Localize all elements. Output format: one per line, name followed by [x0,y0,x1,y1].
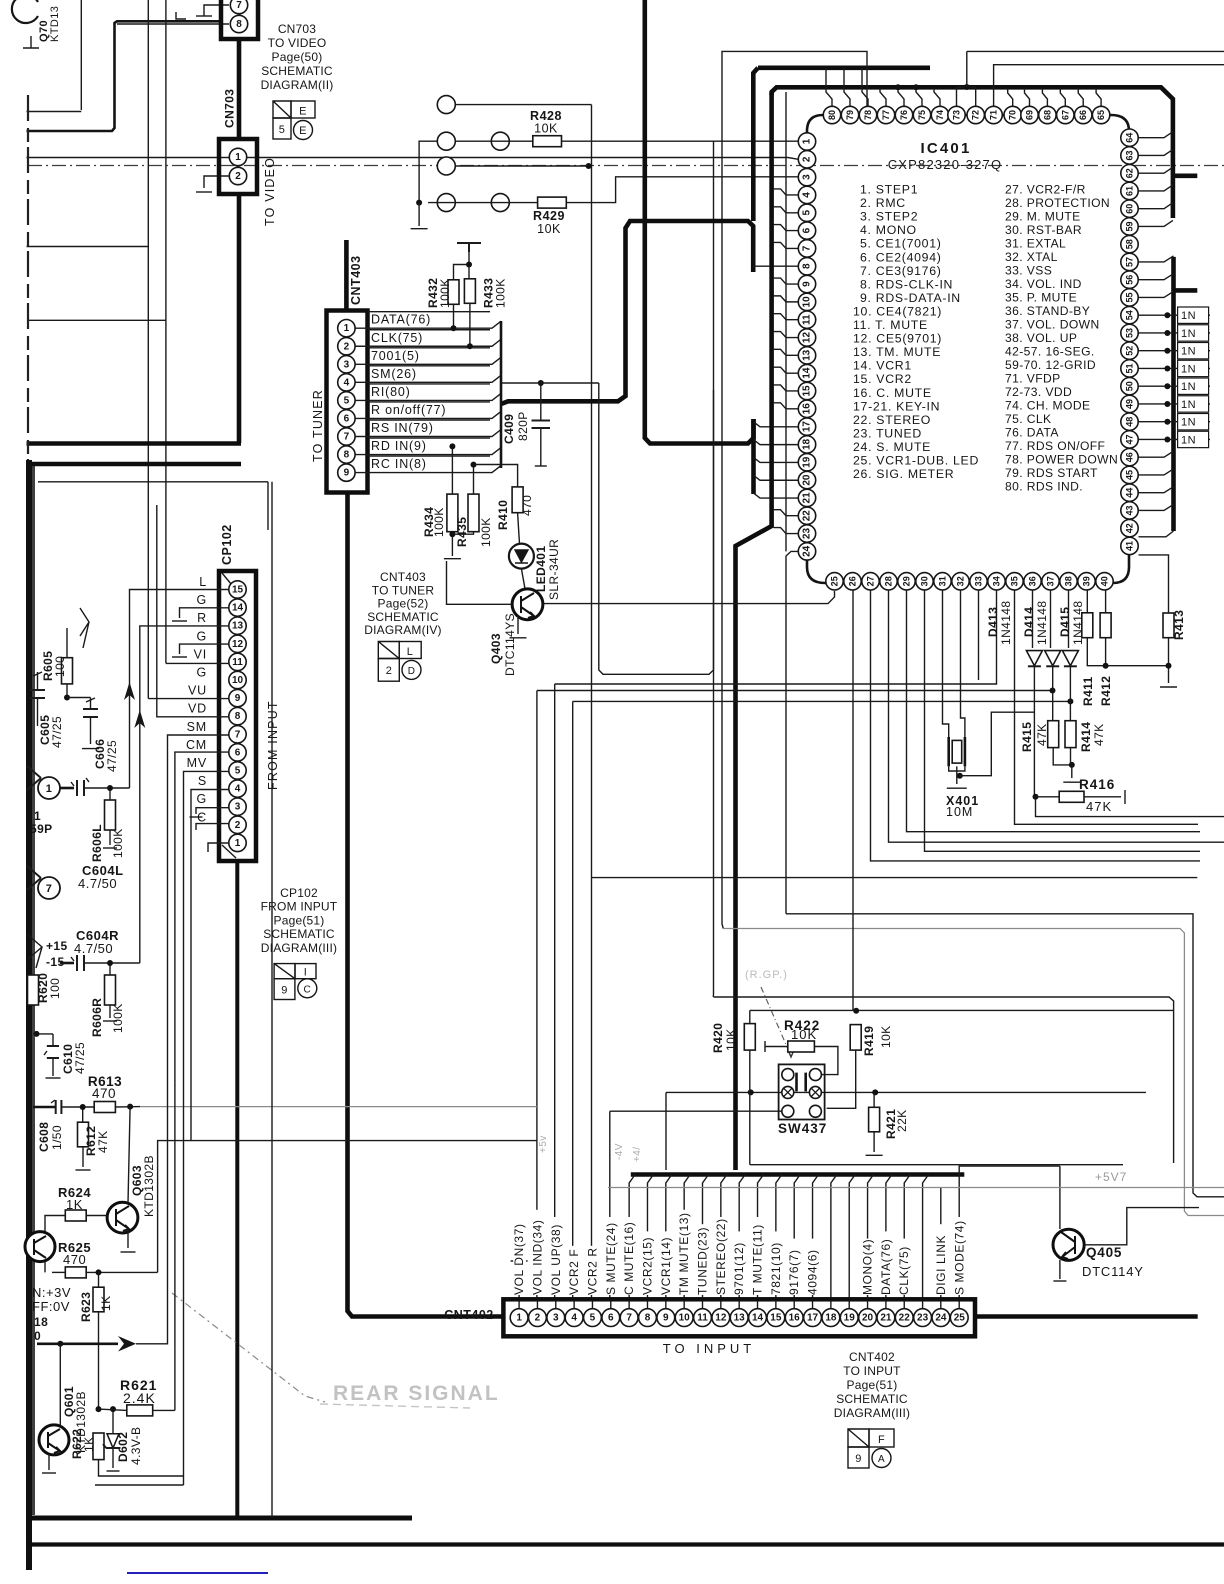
svg-text:TO INPUT: TO INPUT [663,1341,755,1356]
IC401 pin 40 [1096,573,1113,590]
svg-text:100K: 100K [479,517,493,547]
svg-text:5. CE1(7001): 5. CE1(7001) [860,237,942,251]
svg-text:64: 64 [1125,133,1135,143]
svg-text:23: 23 [917,1313,929,1324]
CNT402 pin 12 [712,1309,730,1327]
wire [356,357,502,364]
wire [356,466,502,473]
LED LED401 SLR-34UR [518,513,520,544]
svg-text:10K: 10K [879,1025,893,1048]
svg-text:48: 48 [1125,417,1135,427]
svg-text:D415: D415 [1058,607,1072,637]
vertical x786 upper part [785,92,787,551]
svg-text:78. POWER DOWN: 78. POWER DOWN [1005,453,1118,467]
capacitor C409 820P [540,383,542,421]
svg-text:16: 16 [802,403,813,415]
wire y877.6 long line joining pin5 column [592,877,1198,879]
svg-text:CNT403: CNT403 [349,255,363,305]
IC401 pin 12 [798,329,815,346]
svg-text:12: 12 [232,639,244,650]
svg-text:4.7/50: 4.7/50 [78,876,117,891]
svg-text:470: 470 [92,1086,116,1101]
svg-text:1N: 1N [1181,417,1196,429]
svg-text:TO TUNER: TO TUNER [311,389,325,462]
svg-text:46: 46 [1125,452,1135,462]
IC401 pin 3 [798,168,815,185]
IC401 pin 44 [1121,484,1138,501]
wires pins 46-43 into bus B bottom [1139,451,1174,457]
CNT402 pin 20 label MONO(4) [862,1239,875,1295]
svg-text:1: 1 [235,838,241,849]
IC401 pin 64 [1121,129,1138,146]
IC401 pin 42 [1121,520,1138,537]
IC401 pin 2 [798,151,815,168]
op-amp/microcontroller IC401 CXP82320-327Q body outline [807,115,1129,583]
resistor R415 47K [1048,721,1059,748]
transistor Q601 KTD1302B [39,1425,69,1455]
thick rail y464 [27,462,242,467]
svg-text:3: 3 [553,1313,559,1324]
svg-text:55: 55 [1125,292,1135,302]
svg-text:1. STEP1: 1. STEP1 [860,183,918,197]
stubs bar to pins 17-21 [754,422,799,427]
svg-text:VD: VD [188,702,207,716]
wire pin32 to X401 right [961,590,965,737]
svg-text:37. VOL. DOWN: 37. VOL. DOWN [1005,318,1100,332]
CNT402 pin 19 [840,1309,858,1327]
resistor R432 100K [448,280,459,305]
wire middle row SW437 [666,1091,1146,1093]
svg-text:100: 100 [53,656,67,677]
IC401 pin 33 [970,573,987,590]
zener diode D602 4.3V-B [112,1409,114,1434]
supply T above R432 [457,243,481,252]
CNT402 pin 9 label VCR1(14) [660,1231,673,1295]
svg-text:D413: D413 [986,607,1000,637]
ground below Q70x [23,36,39,48]
svg-text:70: 70 [1008,110,1018,120]
input jack contact circled 7 [27,866,41,890]
CP102 pin 9 [229,689,246,706]
svg-text:77. RDS ON/OFF: 77. RDS ON/OFF [1005,439,1105,453]
wire to Q601 base [59,1344,61,1429]
wire SM(26) extension to C409 and U loop [501,382,599,384]
svg-text:N:+3V: N:+3V [32,1285,71,1300]
wires R411/R412 bottoms [1087,638,1168,666]
diode D414 1N4148 [1045,651,1061,666]
stubs top pins 80-78 to rail1 [826,68,832,106]
wires R613 row [33,1106,56,1109]
svg-text:7: 7 [802,245,813,251]
svg-text:27: 27 [866,576,876,586]
svg-text:74: 74 [935,110,945,120]
svg-text:34. VOL. IND: 34. VOL. IND [1005,277,1082,291]
wires R434/R435 [451,446,453,494]
bus vertical x645 from top [645,0,754,444]
transistor Q405 [1053,1229,1084,1260]
svg-text:35. P. MUTE: 35. P. MUTE [1005,291,1077,305]
page split dash-dot line [28,165,1224,167]
svg-text:R429: R429 [533,209,565,223]
CP102 pin 12 [229,635,246,652]
wire R622 bottom [99,1460,184,1476]
CNT403 harness trunk [500,321,503,468]
wires top pins 70-65 up to bus2 [1008,87,1013,106]
IC401 pin 39 [1078,573,1095,590]
wire CP102 pin5 MV down [184,771,229,1130]
svg-text:R606R: R606R [90,998,104,1037]
resistor R624 1K [65,1210,86,1221]
IC left pin wires merging into main trunk bus [774,189,799,195]
svg-text:6: 6 [802,227,813,233]
svg-text:14: 14 [802,367,813,379]
CNT402 pin 25 label S MODE(74) [953,1217,966,1295]
wire pin33 down-left [978,590,980,680]
wire pin35 down to right bottom [1015,590,1199,824]
resistor R421 22K [869,1107,880,1132]
svg-text:74. CH. MODE: 74. CH. MODE [1005,399,1090,413]
IC401 pin 6 [798,222,815,239]
CNT402 pin 3 [547,1309,565,1327]
wire Q403 emitter ground [517,616,519,634]
CNT402 pin 8 label VCR2(15) [641,1231,654,1295]
svg-text:R413: R413 [1172,610,1186,640]
CNT402 pin 17 [804,1309,822,1327]
svg-text:71. VFDP: 71. VFDP [1005,372,1061,386]
wire pin2 C [196,824,229,830]
svg-text:62: 62 [1125,168,1135,178]
svg-text:VI: VI [194,647,207,661]
wire pin31 to X401 left [943,590,949,737]
switch SW437 [779,1064,825,1119]
wire horizontal y320 [28,319,166,321]
bus stub right y175.8 [1173,174,1197,179]
svg-text:C MUTE(16): C MUTE(16) [622,1222,636,1295]
IC401 pin 71 [985,106,1002,123]
IC401 pin 25 [826,573,843,590]
svg-text:TUNED(23): TUNED(23) [696,1227,710,1295]
wire bundle y684 [554,684,556,1299]
svg-text:S MUTE(24): S MUTE(24) [604,1222,618,1295]
+15 -15 supply chevrons [28,935,42,968]
svg-text:9: 9 [344,468,350,479]
svg-text:TO VIDEO: TO VIDEO [263,157,277,226]
svg-text:CXP82320-327Q: CXP82320-327Q [888,157,1003,172]
svg-text:27. VCR2-F/R: 27. VCR2-F/R [1005,183,1086,197]
IC401 pin 4 [798,186,815,203]
wire Q603 collector up [128,1107,130,1203]
wire [27,111,82,113]
svg-text:7. CE3(9176): 7. CE3(9176) [860,264,942,278]
diode boxes 1N4148 row (cut at page edge) [1178,307,1209,323]
svg-text:9701(12): 9701(12) [732,1242,746,1295]
wire [356,430,502,437]
IC401 pin 50 [1121,378,1138,395]
wire L riser with arrow [130,590,229,789]
svg-text:5: 5 [590,1313,596,1324]
svg-text:49: 49 [1125,399,1135,409]
svg-text:51: 51 [1125,363,1135,373]
IC401 pin 55 [1121,289,1138,306]
IC401 pin 16 [798,400,815,417]
svg-text:Page(50): Page(50) [272,50,323,64]
svg-text:57: 57 [1125,257,1135,267]
svg-text:17: 17 [802,421,813,433]
wire D414 down to R415 [1052,666,1054,720]
pin1 ground tee [511,1260,528,1262]
CNT403 pin 5 [338,392,355,409]
svg-text:VU: VU [188,684,207,698]
bus elbow top-left [27,21,222,131]
blue underline artifact [127,1572,268,1574]
wire R422 right bend to switch [814,1047,838,1075]
svg-text:8: 8 [344,450,350,461]
svg-text:I: I [304,967,307,979]
antenna/jack chevron upper [80,608,89,648]
svg-text:22. STEREO: 22. STEREO [853,413,931,427]
wire pin41 to R413 [1139,555,1169,613]
thick rail right of CNT402 [975,1314,1198,1319]
wire CNT403 stem bottom (trunk corners into CNT402 left) [348,493,506,1317]
svg-text:13: 13 [734,1313,746,1324]
IC401 pin 79 [841,106,858,123]
CNT402 pin 23 [914,1309,932,1327]
wire Q405 collector [1059,1166,1061,1229]
svg-text:9: 9 [281,985,288,997]
CNT403 pin 7 [338,428,355,445]
svg-text:R410: R410 [496,500,510,530]
wire pin39 to R411 [1086,590,1088,613]
CNT402 pin 6 label S MUTE(24) [605,1217,618,1295]
svg-text:15: 15 [770,1313,782,1324]
svg-text:G: G [196,629,207,643]
resistor R434 100K [447,494,458,532]
svg-text:18: 18 [802,438,813,450]
IC401 pin 18 [798,436,815,453]
IC401 pin 45 [1121,466,1138,483]
svg-text:1K: 1K [66,1197,83,1212]
input jack contact circled 1 [27,766,41,790]
svg-text:TM MUTE(13): TM MUTE(13) [677,1212,691,1295]
svg-text:7: 7 [46,883,53,895]
svg-text:0: 0 [34,1329,41,1343]
svg-text:16: 16 [789,1313,801,1324]
svg-text:RI(80): RI(80) [371,385,411,399]
svg-text:S: S [198,774,207,788]
wire C604R to riser R [84,962,140,964]
svg-text:9176(7): 9176(7) [787,1249,801,1295]
svg-text:TO INPUT: TO INPUT [843,1364,901,1378]
svg-text:4: 4 [344,377,350,388]
IC401 pin 62 [1121,165,1138,182]
svg-text:6: 6 [608,1313,614,1324]
svg-text:10: 10 [232,675,244,686]
IC401 pin 77 [877,106,894,123]
svg-text:D414: D414 [1022,607,1036,637]
svg-text:66: 66 [1078,110,1088,120]
wire row4 left drop to ground [419,141,437,202]
CNT402 pin 5 [584,1309,602,1327]
svg-text:G: G [196,792,207,806]
IC401 pin 26 [844,573,861,590]
CNT403 pin 6 [338,410,355,427]
svg-text:15: 15 [802,385,813,397]
svg-text:47/25: 47/25 [73,1042,87,1074]
wire Q603 emitter ground [127,1232,129,1248]
crystal X401 10M [949,737,965,766]
CNT402 pin 24 label DIGI LINK [935,1224,948,1295]
svg-text:8: 8 [645,1313,651,1324]
svg-text:1N: 1N [1181,363,1196,375]
svg-text:22: 22 [802,510,813,522]
svg-text:5: 5 [802,210,813,216]
CNT402 pin 11 [694,1309,712,1327]
svg-text:45: 45 [1125,470,1135,480]
full width bottom rule [28,1542,1224,1546]
IC401 pin 41 [1121,537,1138,554]
wire R625 net riser to y1140 [158,1141,537,1273]
CNT402 pin 20 [859,1309,877,1327]
bus KEY-IN bar [751,419,756,494]
CNT403 pin 3 [338,356,355,373]
wire pin40 to R412 [1105,590,1107,613]
CNT402 pin 8 [639,1309,657,1327]
IC401 pin 63 [1121,147,1138,164]
connector CN703 lower half pins 1,2 [219,139,257,194]
svg-text:2: 2 [802,156,813,162]
svg-text:DTC114Y: DTC114Y [1082,1264,1144,1279]
CP102 pin 3 [229,798,246,815]
svg-text:+5v: +5v [538,1135,549,1153]
svg-text:24. S. MUTE: 24. S. MUTE [853,440,931,454]
left enclosure box top edge [38,481,268,483]
CNT402 pin 10 label TM MUTE(13) [678,1210,691,1295]
svg-text:VCR2 R: VCR2 R [585,1247,599,1295]
svg-text:VCR2 F: VCR2 F [567,1249,581,1295]
svg-text:S MODE(74): S MODE(74) [952,1220,966,1295]
svg-text:9: 9 [855,1453,862,1465]
svg-text:20: 20 [802,474,813,486]
connector CN703 upper half pins 7,8 [221,0,258,39]
comb risers pins 7-23 [629,1175,635,1309]
wire pin8 CN703 feed [117,23,229,25]
CNT403 pin 4 [338,374,355,391]
IC401 pin 57 [1121,253,1138,270]
CNT402 pin 14 [749,1309,767,1327]
bus top rail 1 (pins 80-78) [758,66,930,71]
capacitor C606 47/25 [83,709,98,717]
risers pins 24,25 to right nets [940,1188,942,1309]
grey long line y1187.5 [608,1187,1224,1189]
svg-text:DIAGRAM(II): DIAGRAM(II) [261,78,334,92]
IC401 pin 34 [988,573,1005,590]
svg-text:100K: 100K [111,1003,125,1033]
svg-text:11: 11 [802,314,813,325]
IC401 pin 59 [1121,218,1138,235]
CP102 pin 15 [229,581,246,598]
svg-text:SCHEMATIC: SCHEMATIC [261,64,333,78]
svg-text:18: 18 [34,1315,48,1329]
wires pins 54-47 to 1N boxes with junction dots [1139,314,1211,316]
svg-text:68: 68 [1042,110,1052,120]
svg-text:3: 3 [235,802,241,813]
transistor Q403 DTC114YS [521,569,525,589]
CP102 stem down right edge of enclosure [235,861,239,1518]
svg-text:Page(51): Page(51) [847,1378,898,1392]
svg-text:VOL DN(37): VOL DN(37) [512,1223,526,1295]
wire row1 [455,104,591,106]
svg-text:29: 29 [902,576,912,586]
wire top-left vertical [80,0,82,110]
page reference flag 9-C-I [274,964,295,979]
svg-text:C409: C409 [502,414,516,444]
wire CP102 pin4 S down [191,790,229,1141]
resistor R413 [1163,613,1174,638]
svg-text:43: 43 [1125,505,1135,515]
svg-text:100K: 100K [432,507,446,537]
svg-text:31: 31 [938,576,948,586]
wire Q601 emitter [48,1454,50,1470]
resistor R414 47K [1065,721,1076,748]
IC401 pin 8 [798,258,815,275]
svg-text:6: 6 [235,747,241,758]
resistor R411 [1082,613,1093,638]
CNT402 pin 15 label 7821(10) [770,1231,783,1295]
thick stub with arrow bottom left [37,1343,118,1346]
resistor R620 100 [28,975,39,1005]
svg-text:41: 41 [1125,541,1135,551]
CNT402 pin 7 label C MUTE(16) [623,1217,636,1295]
IC401 pin 43 [1121,502,1138,519]
thick rail y443.5 [27,441,242,446]
transistor Q603 KTD1302B [107,1202,138,1233]
IC401 pin 37 [1042,573,1059,590]
wire y701.4 to D415 [573,700,1071,702]
svg-text:R414: R414 [1079,722,1093,752]
bus right segment B [1171,257,1176,531]
svg-text:VCR1(14): VCR1(14) [659,1237,673,1295]
svg-text:61: 61 [1125,186,1135,196]
svg-text:77: 77 [881,110,891,120]
svg-text:11. T. MUTE: 11. T. MUTE [853,318,928,332]
wires R421 [873,1092,875,1107]
wire y927.6 grey with corner down [723,929,1224,1216]
resistor R422 10K [788,1041,815,1052]
IC401 pin 23 [798,525,815,542]
IC401 pin 7 [798,240,815,257]
svg-text:42: 42 [1125,523,1135,533]
svg-text:80. RDS IND.: 80. RDS IND. [1005,480,1083,494]
wires R621 [99,1409,127,1410]
IC401 pin 51 [1121,360,1138,377]
resistor R416 47K [1059,791,1084,802]
svg-text:22: 22 [899,1313,911,1324]
svg-text:75. CLK: 75. CLK [1005,412,1052,426]
long vertical wire x148 (VU net) [147,0,149,699]
svg-text:8: 8 [802,263,813,269]
CP102 pin 2 [229,816,246,833]
long vertical wire x165.9 (VI net) [165,0,167,663]
CNT402 pin 2 label VOL IND(34) [531,1210,544,1295]
IC401 pin 27 [862,573,879,590]
wire top thin line segment 2 [967,50,1224,52]
resistor R420 10K [744,1024,755,1051]
svg-text:52: 52 [1125,346,1135,356]
resistor R606R 100K [105,975,116,1005]
svg-text:13. TM. MUTE: 13. TM. MUTE [853,345,941,359]
svg-text:Page(52): Page(52) [378,597,429,611]
svg-text:VOL UP(38): VOL UP(38) [549,1224,563,1295]
